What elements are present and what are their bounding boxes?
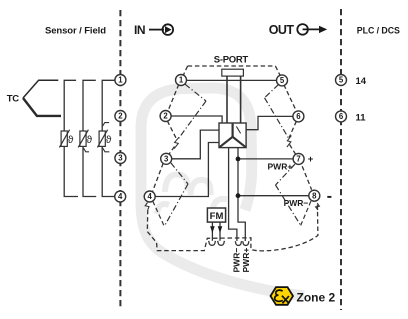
- wire terminal1 to terminal5: [186, 79, 276, 81]
- junction node 8: [236, 193, 241, 198]
- isolator power leg left: [229, 148, 237, 241]
- isolator U1: [219, 123, 246, 148]
- inner line 8 to below-8: [301, 201, 311, 225]
- module outline 5-6: [284, 85, 297, 112]
- watermark inner bump 3: [212, 199, 227, 213]
- svg-text:6: 6: [339, 112, 344, 121]
- notch break right: [287, 136, 292, 147]
- svg-text:PLC / DCS: PLC / DCS: [357, 26, 400, 36]
- FM box: [207, 208, 225, 222]
- module terminal 5: [277, 75, 288, 86]
- inner line elbow-notch right: [265, 98, 289, 138]
- module outline 2 to notch: [167, 121, 176, 139]
- svg-text:OUT: OUT: [269, 23, 295, 37]
- svg-text:3: 3: [118, 154, 123, 163]
- PLC terminal 5: [336, 75, 347, 86]
- module terminal 3: [161, 153, 172, 164]
- IN symbol: [134, 23, 173, 37]
- terminal 4 field: [115, 191, 126, 202]
- svg-text:4: 4: [148, 192, 153, 201]
- svg-text:8: 8: [312, 191, 317, 200]
- sensor wire 3: [102, 80, 115, 196]
- sensor wire 1: [64, 80, 78, 196]
- svg-text:FM: FM: [210, 211, 224, 222]
- svg-text:5: 5: [339, 76, 344, 85]
- module terminal 1: [176, 75, 187, 86]
- inner line elbow-notch left: [178, 101, 206, 140]
- module outline 1-2: [168, 84, 179, 111]
- module outline notch to 3: [169, 147, 175, 155]
- notch break left: [174, 137, 179, 148]
- svg-text:Zone 2: Zone 2: [297, 291, 336, 305]
- svg-text:7: 7: [296, 155, 300, 164]
- OUT symbol: [269, 23, 327, 37]
- svg-text:2: 2: [118, 112, 123, 121]
- S-PORT leg left: [226, 76, 228, 123]
- sensor wire 2: [83, 80, 96, 196]
- svg-text:Sensor / Field: Sensor / Field: [45, 26, 106, 37]
- inner line 4 to below-4: [153, 201, 165, 226]
- svg-text:+: +: [308, 154, 314, 165]
- svg-text:PWR−: PWR−: [284, 198, 309, 208]
- wire terminal4 to isolator: [155, 143, 219, 197]
- S-PORT connector box: [222, 69, 244, 76]
- TC bracket lower arm (thick): [23, 98, 61, 116]
- terminal 3 field: [115, 153, 126, 164]
- svg-text:14: 14: [356, 76, 367, 87]
- module terminal 8: [309, 190, 320, 201]
- svg-text:2: 2: [163, 112, 168, 121]
- module outline top-left corner: [183, 66, 187, 75]
- svg-text:TC: TC: [7, 94, 20, 105]
- socket cup PWR-: [235, 241, 241, 245]
- module outline top edge: [188, 65, 276, 67]
- svg-text:IN: IN: [134, 23, 145, 37]
- inner line vertex to below-8: [276, 185, 301, 225]
- module terminal 2: [160, 111, 171, 122]
- terminal 1 field: [115, 75, 126, 86]
- Ex hexagon: [271, 287, 294, 305]
- svg-text:6: 6: [296, 112, 301, 121]
- module terminal 7: [293, 153, 304, 164]
- socket cup PWR+: [243, 241, 249, 245]
- wire terminal3 to isolator: [172, 130, 220, 159]
- module outline 7-8: [302, 166, 311, 190]
- module outline 3-4: [152, 163, 163, 192]
- module terminal 6: [293, 111, 304, 122]
- svg-text:4: 4: [118, 192, 123, 201]
- module outline top-right corner: [275, 66, 280, 75]
- svg-text:ϑ: ϑ: [106, 134, 112, 146]
- watermark inner bump 2: [191, 180, 211, 195]
- wire to terminal8: [238, 195, 309, 197]
- RTD R2: [78, 130, 92, 152]
- FM drop left with plug arrow: [210, 222, 215, 241]
- PLC terminal 6: [336, 111, 347, 122]
- socket cup FM left: [209, 241, 216, 245]
- PLC separator dashed line: [340, 9, 342, 310]
- inner line 7 to vertex: [276, 164, 295, 185]
- RTD R3: [97, 123, 111, 152]
- FM drop right with plug arrow: [218, 222, 223, 241]
- wire terminal2 to isolator: [171, 116, 222, 123]
- watermark ring: [141, 88, 252, 210]
- svg-text:ϑ: ϑ: [68, 134, 74, 146]
- watermark inner bump 1: [165, 174, 188, 192]
- svg-text:S-PORT: S-PORT: [214, 55, 249, 66]
- svg-text:ϑ: ϑ: [86, 134, 92, 146]
- inner line 5-elbow: [265, 84, 279, 97]
- RTD R1: [59, 130, 73, 148]
- watermark tail sweep: [141, 200, 304, 296]
- inner line 1-elbow: [185, 84, 206, 101]
- inner line 3 to vertex: [171, 163, 188, 184]
- S-PORT leg right: [240, 76, 242, 123]
- module terminal 4: [144, 191, 155, 202]
- outline break below 8: [316, 203, 320, 210]
- svg-text:1: 1: [118, 76, 123, 85]
- watermark inner blob: [157, 204, 169, 214]
- svg-text:3: 3: [164, 154, 169, 163]
- outline break below 4: [145, 203, 149, 210]
- module outline lower-left: [147, 204, 318, 251]
- svg-text:5: 5: [280, 76, 285, 85]
- socket cup FM right: [218, 241, 225, 245]
- svg-text:1: 1: [179, 76, 184, 85]
- module outline notch to 7: [290, 145, 296, 155]
- wire to terminal7: [238, 158, 293, 160]
- junction node 7: [236, 157, 241, 162]
- terminal 2 field: [115, 111, 126, 122]
- TC bracket upper arm: [23, 80, 58, 98]
- module outline 6 to notch: [289, 121, 296, 137]
- svg-text:PWR+: PWR+: [241, 248, 251, 273]
- wire isolator to terminal6: [246, 116, 293, 129]
- minus sign terminal 8: [327, 196, 331, 198]
- inner line vertex to below-4: [164, 184, 188, 226]
- field separator dashed line: [119, 10, 121, 307]
- svg-text:PWR+: PWR+: [268, 162, 293, 172]
- svg-text:11: 11: [356, 112, 367, 123]
- isolator power leg right: [238, 148, 245, 241]
